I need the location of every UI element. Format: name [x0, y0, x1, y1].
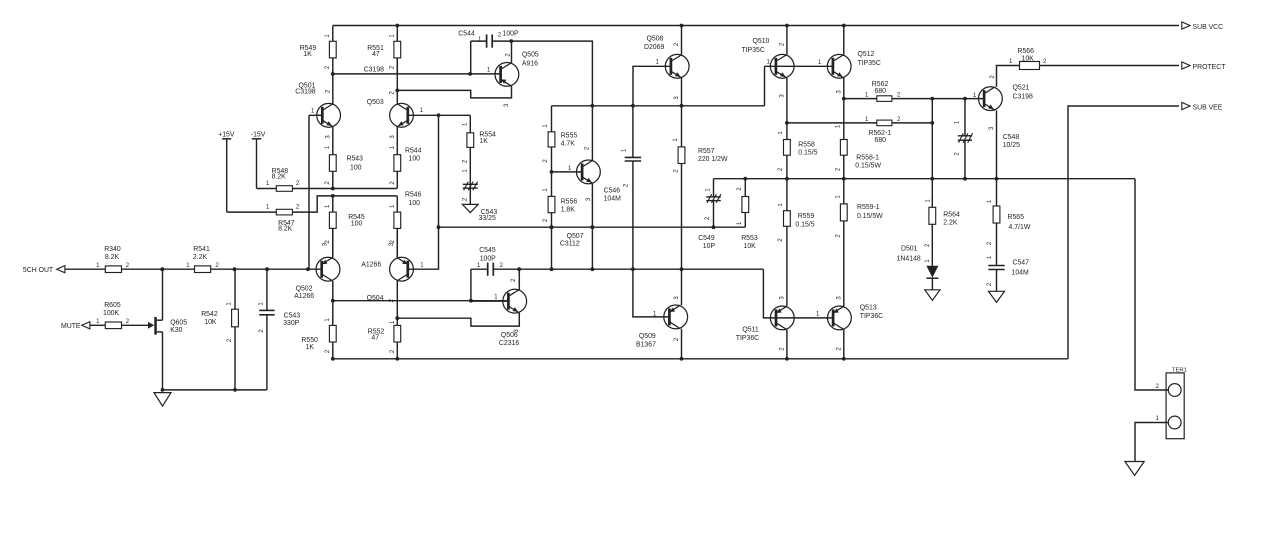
svg-text:8.2K: 8.2K — [105, 254, 120, 261]
svg-text:MUTE: MUTE — [61, 323, 81, 330]
svg-text:A916: A916 — [522, 61, 538, 68]
svg-text:1K: 1K — [303, 51, 312, 58]
svg-text:C545: C545 — [479, 247, 496, 254]
svg-text:2.2K: 2.2K — [943, 219, 958, 226]
diode D501 — [897, 246, 939, 290]
transistor Q513 — [816, 296, 883, 351]
svg-text:10/25: 10/25 — [1003, 142, 1020, 149]
svg-text:D2069: D2069 — [644, 44, 664, 51]
wire Q510 collector — [786, 26, 788, 55]
wire +15V tail — [227, 194, 398, 212]
ground — [462, 204, 478, 212]
wire Q508 emitter — [681, 78, 683, 106]
svg-text:100K: 100K — [103, 310, 119, 317]
resistor R542 — [201, 269, 238, 390]
svg-text:Q510: Q510 — [753, 38, 770, 45]
wire Q512 emitter — [842, 78, 846, 140]
svg-text:R558: R558 — [798, 142, 815, 149]
svg-text:100P: 100P — [480, 255, 496, 262]
svg-text:C3198: C3198 — [1013, 94, 1033, 101]
wire Q503 base — [408, 113, 441, 117]
wire Q513 emitter — [843, 330, 845, 359]
svg-text:PROTECT: PROTECT — [1193, 64, 1227, 71]
svg-text:33/25: 33/25 — [479, 215, 496, 222]
svg-text:SUB VCC: SUB VCC — [1193, 24, 1224, 31]
svg-text:47: 47 — [372, 51, 380, 58]
svg-text:Q505: Q505 — [522, 52, 539, 59]
wire Q504 emitter — [396, 228, 398, 257]
resistor R564 — [925, 179, 960, 266]
svg-text:B1367: B1367 — [636, 341, 656, 348]
svg-text:0.15/5W: 0.15/5W — [857, 213, 883, 220]
transistor Q509 — [636, 296, 688, 349]
wire Q506 emitter loop — [397, 313, 519, 326]
resistor R544 — [390, 127, 422, 188]
svg-text:C547: C547 — [1013, 260, 1030, 267]
svg-text:Q521: Q521 — [1013, 85, 1030, 92]
node MUTE — [61, 322, 90, 330]
transistor Q505 — [495, 52, 539, 87]
svg-text:104M: 104M — [1012, 269, 1029, 276]
resistor R555 — [543, 106, 577, 172]
wire Q512 collector — [843, 26, 845, 55]
svg-text:R564: R564 — [943, 212, 960, 219]
resistor R605 — [96, 302, 130, 329]
wire Q507 collector — [591, 106, 593, 160]
svg-text:R605: R605 — [104, 302, 121, 309]
resistor R557 — [673, 106, 728, 269]
resistor R541 — [186, 246, 219, 273]
capacitor C547 — [987, 255, 1029, 291]
svg-text:0.15/5: 0.15/5 — [798, 150, 817, 157]
wire ground bus — [161, 388, 267, 392]
svg-text:10P: 10P — [703, 243, 716, 250]
wire VAS line — [552, 104, 765, 108]
svg-text:C544: C544 — [458, 30, 475, 37]
wire Q511 emitter — [786, 330, 788, 359]
wire Q506 base — [471, 300, 509, 302]
transistor Q512 — [827, 51, 881, 94]
svg-text:100: 100 — [409, 155, 421, 162]
svg-text:8.2K: 8.2K — [278, 226, 293, 233]
wire Q521 collector — [997, 66, 1020, 87]
svg-text:R566: R566 — [1018, 48, 1035, 55]
wire feedback line — [439, 225, 746, 229]
svg-text:R553: R553 — [741, 235, 758, 242]
wire 5CH OUT to R340 — [65, 268, 105, 270]
wire Q510 emitter — [785, 78, 789, 140]
resistor R549 — [300, 26, 336, 74]
svg-text:R562: R562 — [872, 81, 889, 88]
svg-text:R556: R556 — [561, 198, 578, 205]
svg-text:100: 100 — [351, 220, 363, 227]
wire Q508 base riser — [633, 66, 671, 106]
svg-text:10K: 10K — [744, 243, 757, 250]
wire emitter network line — [714, 177, 1136, 181]
transistor Q521 — [979, 75, 1033, 131]
ground — [154, 393, 171, 407]
svg-text:C543: C543 — [284, 313, 301, 320]
svg-text:R565: R565 — [1008, 214, 1025, 221]
ground — [1125, 462, 1144, 476]
wire Q509 emitter — [681, 329, 683, 359]
svg-text:C548: C548 — [1003, 134, 1020, 141]
wire TER1 pin 2 — [1135, 179, 1168, 390]
capacitor C543 33/25 — [463, 169, 498, 222]
capacitor C545 — [471, 247, 519, 276]
resistor R545 — [325, 196, 365, 258]
wire C545 left riser — [470, 269, 472, 301]
capacitor C546 — [604, 106, 642, 269]
capacitor C549 — [698, 179, 721, 251]
wire R340 to R541 — [122, 267, 195, 271]
wire Q502 emitter — [332, 228, 334, 257]
svg-text:R542: R542 — [201, 311, 218, 318]
svg-text:Q507: Q507 — [567, 233, 584, 240]
svg-text:Q504: Q504 — [367, 295, 384, 302]
svg-text:330P: 330P — [283, 320, 299, 327]
wire Q510 base riser — [764, 66, 766, 106]
transistor Q507 — [560, 146, 600, 247]
capacitor C543 — [258, 269, 300, 390]
svg-text:47: 47 — [371, 334, 379, 341]
wire Q506 collector — [517, 267, 521, 289]
node SUB VEE — [1182, 102, 1223, 111]
svg-text:R559-1: R559-1 — [857, 204, 880, 211]
svg-text:R558-1: R558-1 — [856, 155, 879, 162]
svg-text:Q509: Q509 — [639, 333, 656, 340]
node SUB VCC — [1182, 22, 1223, 31]
svg-text:1K: 1K — [479, 138, 488, 145]
svg-text:100: 100 — [350, 165, 362, 172]
svg-text:R557: R557 — [698, 148, 715, 155]
svg-text:R555: R555 — [561, 132, 578, 139]
wire rail mid — [519, 267, 763, 271]
ground — [925, 290, 940, 301]
svg-text:TER1: TER1 — [1172, 368, 1187, 374]
svg-text:A1266: A1266 — [361, 262, 381, 269]
wire Q510-Q512 base — [765, 60, 833, 66]
wire R562 junction riser — [930, 97, 934, 179]
svg-text:4.7K: 4.7K — [561, 140, 576, 147]
resistor R562 — [844, 81, 933, 101]
wire Q505 emitter return — [397, 86, 511, 107]
svg-text:5CH OUT: 5CH OUT — [23, 267, 54, 274]
wire Q503 base to R554 — [439, 114, 471, 116]
resistor R551 — [367, 26, 400, 74]
svg-text:R559: R559 — [798, 213, 815, 220]
transistor Q510 — [742, 38, 795, 98]
svg-text:8.2K: 8.2K — [272, 174, 287, 181]
svg-text:680: 680 — [875, 137, 887, 144]
wire SUB VEE drop — [1068, 106, 1179, 359]
svg-text:4.7/1W: 4.7/1W — [1009, 224, 1031, 231]
wire MUTE to R605 — [90, 324, 105, 326]
wire Q509 base riser — [633, 269, 670, 317]
capacitor C548 — [955, 99, 1020, 179]
wire -15V tail — [257, 187, 398, 191]
resistor R565 — [987, 179, 1031, 266]
svg-text:SUB VEE: SUB VEE — [1193, 104, 1223, 111]
svg-text:K30: K30 — [170, 327, 182, 334]
ground — [989, 291, 1005, 302]
svg-text:A1266: A1266 — [294, 293, 314, 300]
svg-text:Q508: Q508 — [647, 36, 664, 43]
power -15V — [251, 131, 266, 188]
wire Q507 emitter — [591, 184, 595, 270]
svg-text:100: 100 — [409, 200, 421, 207]
resistor R559 — [778, 179, 815, 306]
svg-text:TIP36C: TIP36C — [736, 335, 759, 342]
resistor R566 — [1009, 48, 1179, 69]
svg-text:-15V: -15V — [251, 131, 266, 138]
resistor R548 — [266, 168, 300, 191]
resistor R552 — [368, 318, 401, 359]
svg-text:1N4148: 1N4148 — [897, 255, 921, 262]
wire net Q504 — [331, 281, 509, 326]
svg-text:Q513: Q513 — [860, 304, 877, 311]
svg-text:10K: 10K — [204, 319, 217, 326]
svg-text:R543: R543 — [347, 156, 364, 163]
node 5CH OUT — [23, 266, 65, 275]
svg-text:C3112: C3112 — [560, 241, 580, 248]
wire Q505 base — [470, 68, 500, 74]
wire Q521 emitter — [996, 110, 998, 178]
transistor Q503 — [367, 90, 424, 138]
wire Q521 base — [932, 93, 984, 101]
connector TER1 — [1166, 368, 1187, 439]
transistor Q511 — [736, 296, 794, 351]
wire bottom rail — [331, 357, 1068, 361]
svg-text:C546: C546 — [604, 187, 621, 194]
wire R556 to rail — [550, 225, 554, 269]
wire rail to Q511 base — [763, 269, 833, 318]
svg-text:C3198: C3198 — [295, 88, 315, 95]
wire Q509 collector — [681, 269, 683, 305]
svg-text:R546: R546 — [405, 191, 422, 198]
svg-text:TIP35C: TIP35C — [742, 47, 765, 54]
svg-text:C549: C549 — [698, 235, 715, 242]
transistor Q506 — [494, 278, 526, 347]
wire Q501 base riser — [309, 115, 322, 269]
svg-text:0.15/5: 0.15/5 — [795, 222, 814, 229]
svg-text:100P: 100P — [503, 30, 519, 37]
transistor Q502 — [294, 242, 340, 300]
svg-text:104M: 104M — [604, 195, 621, 202]
svg-text:Q512: Q512 — [858, 51, 875, 58]
resistor R547 — [266, 205, 300, 233]
capacitor C544 — [458, 30, 519, 47]
svg-text:C3198: C3198 — [364, 66, 384, 73]
resistor R546 — [390, 191, 422, 257]
svg-text:R541: R541 — [193, 246, 210, 253]
svg-text:10K: 10K — [1022, 56, 1035, 63]
resistor R558 — [778, 131, 818, 179]
resistor R559-1 — [836, 179, 883, 306]
svg-text:220 1/2W: 220 1/2W — [698, 156, 728, 163]
resistor R562-1 — [787, 117, 932, 144]
svg-text:0.15/5W: 0.15/5W — [855, 162, 881, 169]
svg-text:Q503: Q503 — [367, 99, 384, 106]
wire top VCC rail — [333, 24, 1179, 28]
power +15V — [218, 131, 235, 212]
svg-text:1.8K: 1.8K — [561, 206, 576, 213]
wire Q508 collector — [681, 26, 683, 55]
svg-text:Q511: Q511 — [742, 326, 759, 333]
resistor R554 — [463, 115, 496, 184]
wire C544 left leg — [470, 41, 472, 74]
svg-text:2.2K: 2.2K — [193, 254, 208, 261]
wire C544 to VAS line — [511, 41, 592, 106]
transistor Q501 — [295, 82, 340, 138]
resistor R550 — [301, 318, 336, 359]
wire Q503 collector — [395, 58, 399, 104]
svg-text:TIP35C: TIP35C — [858, 60, 881, 67]
transistor Q504 — [361, 242, 424, 302]
wire TER1 pin 1 — [1135, 416, 1168, 462]
wire R605 to Q605 gate — [122, 324, 150, 326]
svg-text:+15V: +15V — [218, 131, 235, 138]
svg-text:680: 680 — [875, 88, 887, 95]
resistor R558-1 — [836, 124, 882, 179]
svg-text:Q605: Q605 — [170, 320, 187, 327]
svg-text:R340: R340 — [104, 246, 121, 253]
wire Q501 collector — [332, 74, 334, 104]
wire Q504 base riser — [408, 115, 441, 269]
transistor Q605 — [148, 317, 187, 335]
wire R541 to Q502 base — [211, 267, 322, 271]
wire Q504 collector — [395, 281, 399, 320]
svg-text:C2316: C2316 — [499, 340, 519, 347]
resistor R543 — [325, 127, 363, 188]
svg-text:Q502: Q502 — [296, 285, 313, 292]
resistor R340 — [96, 246, 130, 273]
wire Q507 base — [550, 170, 583, 174]
resistor R556 — [543, 172, 577, 227]
wire Q605 drain to rail — [162, 269, 164, 320]
svg-text:D501: D501 — [901, 246, 918, 253]
node PROTECT — [1182, 62, 1226, 71]
svg-text:R562-1: R562-1 — [869, 130, 892, 137]
svg-text:TIP36C: TIP36C — [860, 313, 883, 320]
svg-text:R544: R544 — [405, 147, 422, 154]
wire Q605 source to ground — [162, 332, 164, 390]
wire Q505 collector — [509, 39, 513, 63]
wire net C3198 — [331, 66, 472, 75]
resistor R553 — [737, 179, 758, 251]
svg-text:1K: 1K — [306, 344, 315, 351]
transistor Q508 — [644, 36, 689, 100]
